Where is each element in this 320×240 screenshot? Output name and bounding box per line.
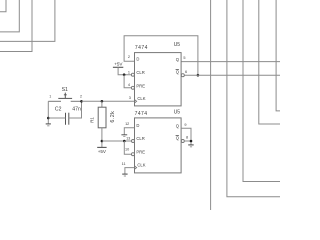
svg-text:1: 1 bbox=[128, 70, 130, 74]
wire left node down bbox=[47, 101, 49, 123]
svg-text:2: 2 bbox=[128, 55, 130, 59]
svg-text:C2: C2 bbox=[55, 106, 62, 112]
node lower CLR junction bbox=[123, 140, 126, 143]
svg-text:4: 4 bbox=[128, 83, 130, 87]
node left junction bbox=[47, 117, 50, 120]
svg-text:12: 12 bbox=[125, 122, 129, 126]
wire top-left 3 bbox=[0, 0, 32, 52]
supply +5V upper bbox=[113, 62, 124, 68]
svg-text:S1: S1 bbox=[62, 87, 68, 93]
svg-text:U5: U5 bbox=[174, 42, 181, 48]
svg-text:47n: 47n bbox=[72, 106, 81, 112]
svg-text:2: 2 bbox=[80, 95, 82, 99]
svg-text:D: D bbox=[136, 57, 139, 62]
node Qbar junction bbox=[197, 74, 200, 77]
svg-text:8: 8 bbox=[186, 136, 188, 140]
wire top-left 1 bbox=[0, 0, 6, 12]
wire lower Qbar stub bbox=[184, 140, 191, 142]
wire cap left bbox=[48, 117, 65, 119]
node R1 top junction bbox=[101, 100, 104, 103]
wire lower D rail bbox=[124, 128, 134, 135]
svg-text:10: 10 bbox=[125, 148, 129, 152]
switch S1 bbox=[49, 87, 82, 99]
svg-text:1: 1 bbox=[49, 94, 51, 98]
svg-text:CLK: CLK bbox=[137, 96, 145, 101]
wire right bus 5 bbox=[276, 0, 280, 111]
wire right bus 2 bbox=[227, 0, 280, 197]
wire lower Q to Qbar bbox=[181, 128, 191, 144]
wire right bus 1 bbox=[210, 0, 212, 210]
wire top-left 4 bbox=[0, 0, 55, 41]
IC U5A 7474 D-flip-flop (upper) bbox=[128, 42, 187, 106]
svg-text:7474: 7474 bbox=[135, 45, 148, 51]
ground at lower Qbar bbox=[188, 145, 194, 147]
svg-text:+5V: +5V bbox=[114, 62, 123, 67]
wire cap right bbox=[69, 101, 82, 118]
wire switch right stub bbox=[71, 100, 82, 102]
wire top-left 2 bbox=[0, 0, 19, 32]
svg-text:D: D bbox=[136, 123, 139, 128]
svg-text:CLK: CLK bbox=[137, 162, 145, 167]
wire Qbar out upper bbox=[184, 74, 280, 76]
svg-text:6.2k: 6.2k bbox=[110, 111, 116, 123]
wire upper PRE branch bbox=[124, 75, 131, 88]
svg-text:13: 13 bbox=[126, 137, 130, 141]
supply +5V under R1 bbox=[97, 147, 107, 154]
svg-text:7474: 7474 bbox=[135, 111, 148, 117]
node right junction bbox=[80, 100, 83, 103]
wire right bus 4 bbox=[259, 0, 280, 124]
wire Q out upper bbox=[181, 61, 280, 63]
svg-text:9: 9 bbox=[184, 123, 186, 127]
ground at lower D bbox=[121, 135, 127, 137]
wire lower PRE branch bbox=[124, 141, 131, 154]
wire main to CLK bbox=[82, 100, 135, 102]
wire switch left stub bbox=[48, 100, 61, 102]
svg-text:U5: U5 bbox=[174, 110, 181, 116]
wire lower CLK to ground bbox=[125, 168, 134, 174]
svg-text:3: 3 bbox=[129, 96, 131, 100]
node lower Qbar junction bbox=[190, 140, 193, 143]
capacitor C2 bbox=[55, 106, 81, 124]
svg-text:PRE: PRE bbox=[136, 149, 145, 154]
svg-text:CLR: CLR bbox=[136, 136, 144, 141]
wire Qbar-to-D feedback U5A bbox=[124, 36, 198, 75]
svg-text:6: 6 bbox=[185, 70, 187, 74]
wire lower CLR net bbox=[102, 140, 132, 142]
wire +5V to CLR bbox=[118, 67, 131, 74]
svg-text:5: 5 bbox=[183, 56, 185, 60]
wire right bus 3 bbox=[243, 0, 280, 182]
IC U5B 7474 D-flip-flop (lower) bbox=[122, 110, 188, 173]
resistor R1 bbox=[90, 101, 116, 127]
svg-text:R1: R1 bbox=[90, 117, 95, 123]
ground under switch bbox=[46, 124, 51, 126]
svg-text:PRE: PRE bbox=[136, 83, 145, 88]
wire R1 bottom bbox=[101, 128, 103, 147]
node R1 bottom junction bbox=[101, 140, 104, 143]
svg-text:11: 11 bbox=[122, 162, 126, 166]
node upper CLR junction bbox=[123, 73, 126, 76]
svg-text:CLR: CLR bbox=[136, 70, 144, 75]
svg-text:+5V: +5V bbox=[98, 149, 107, 154]
ground at lower CLK bbox=[122, 174, 127, 176]
